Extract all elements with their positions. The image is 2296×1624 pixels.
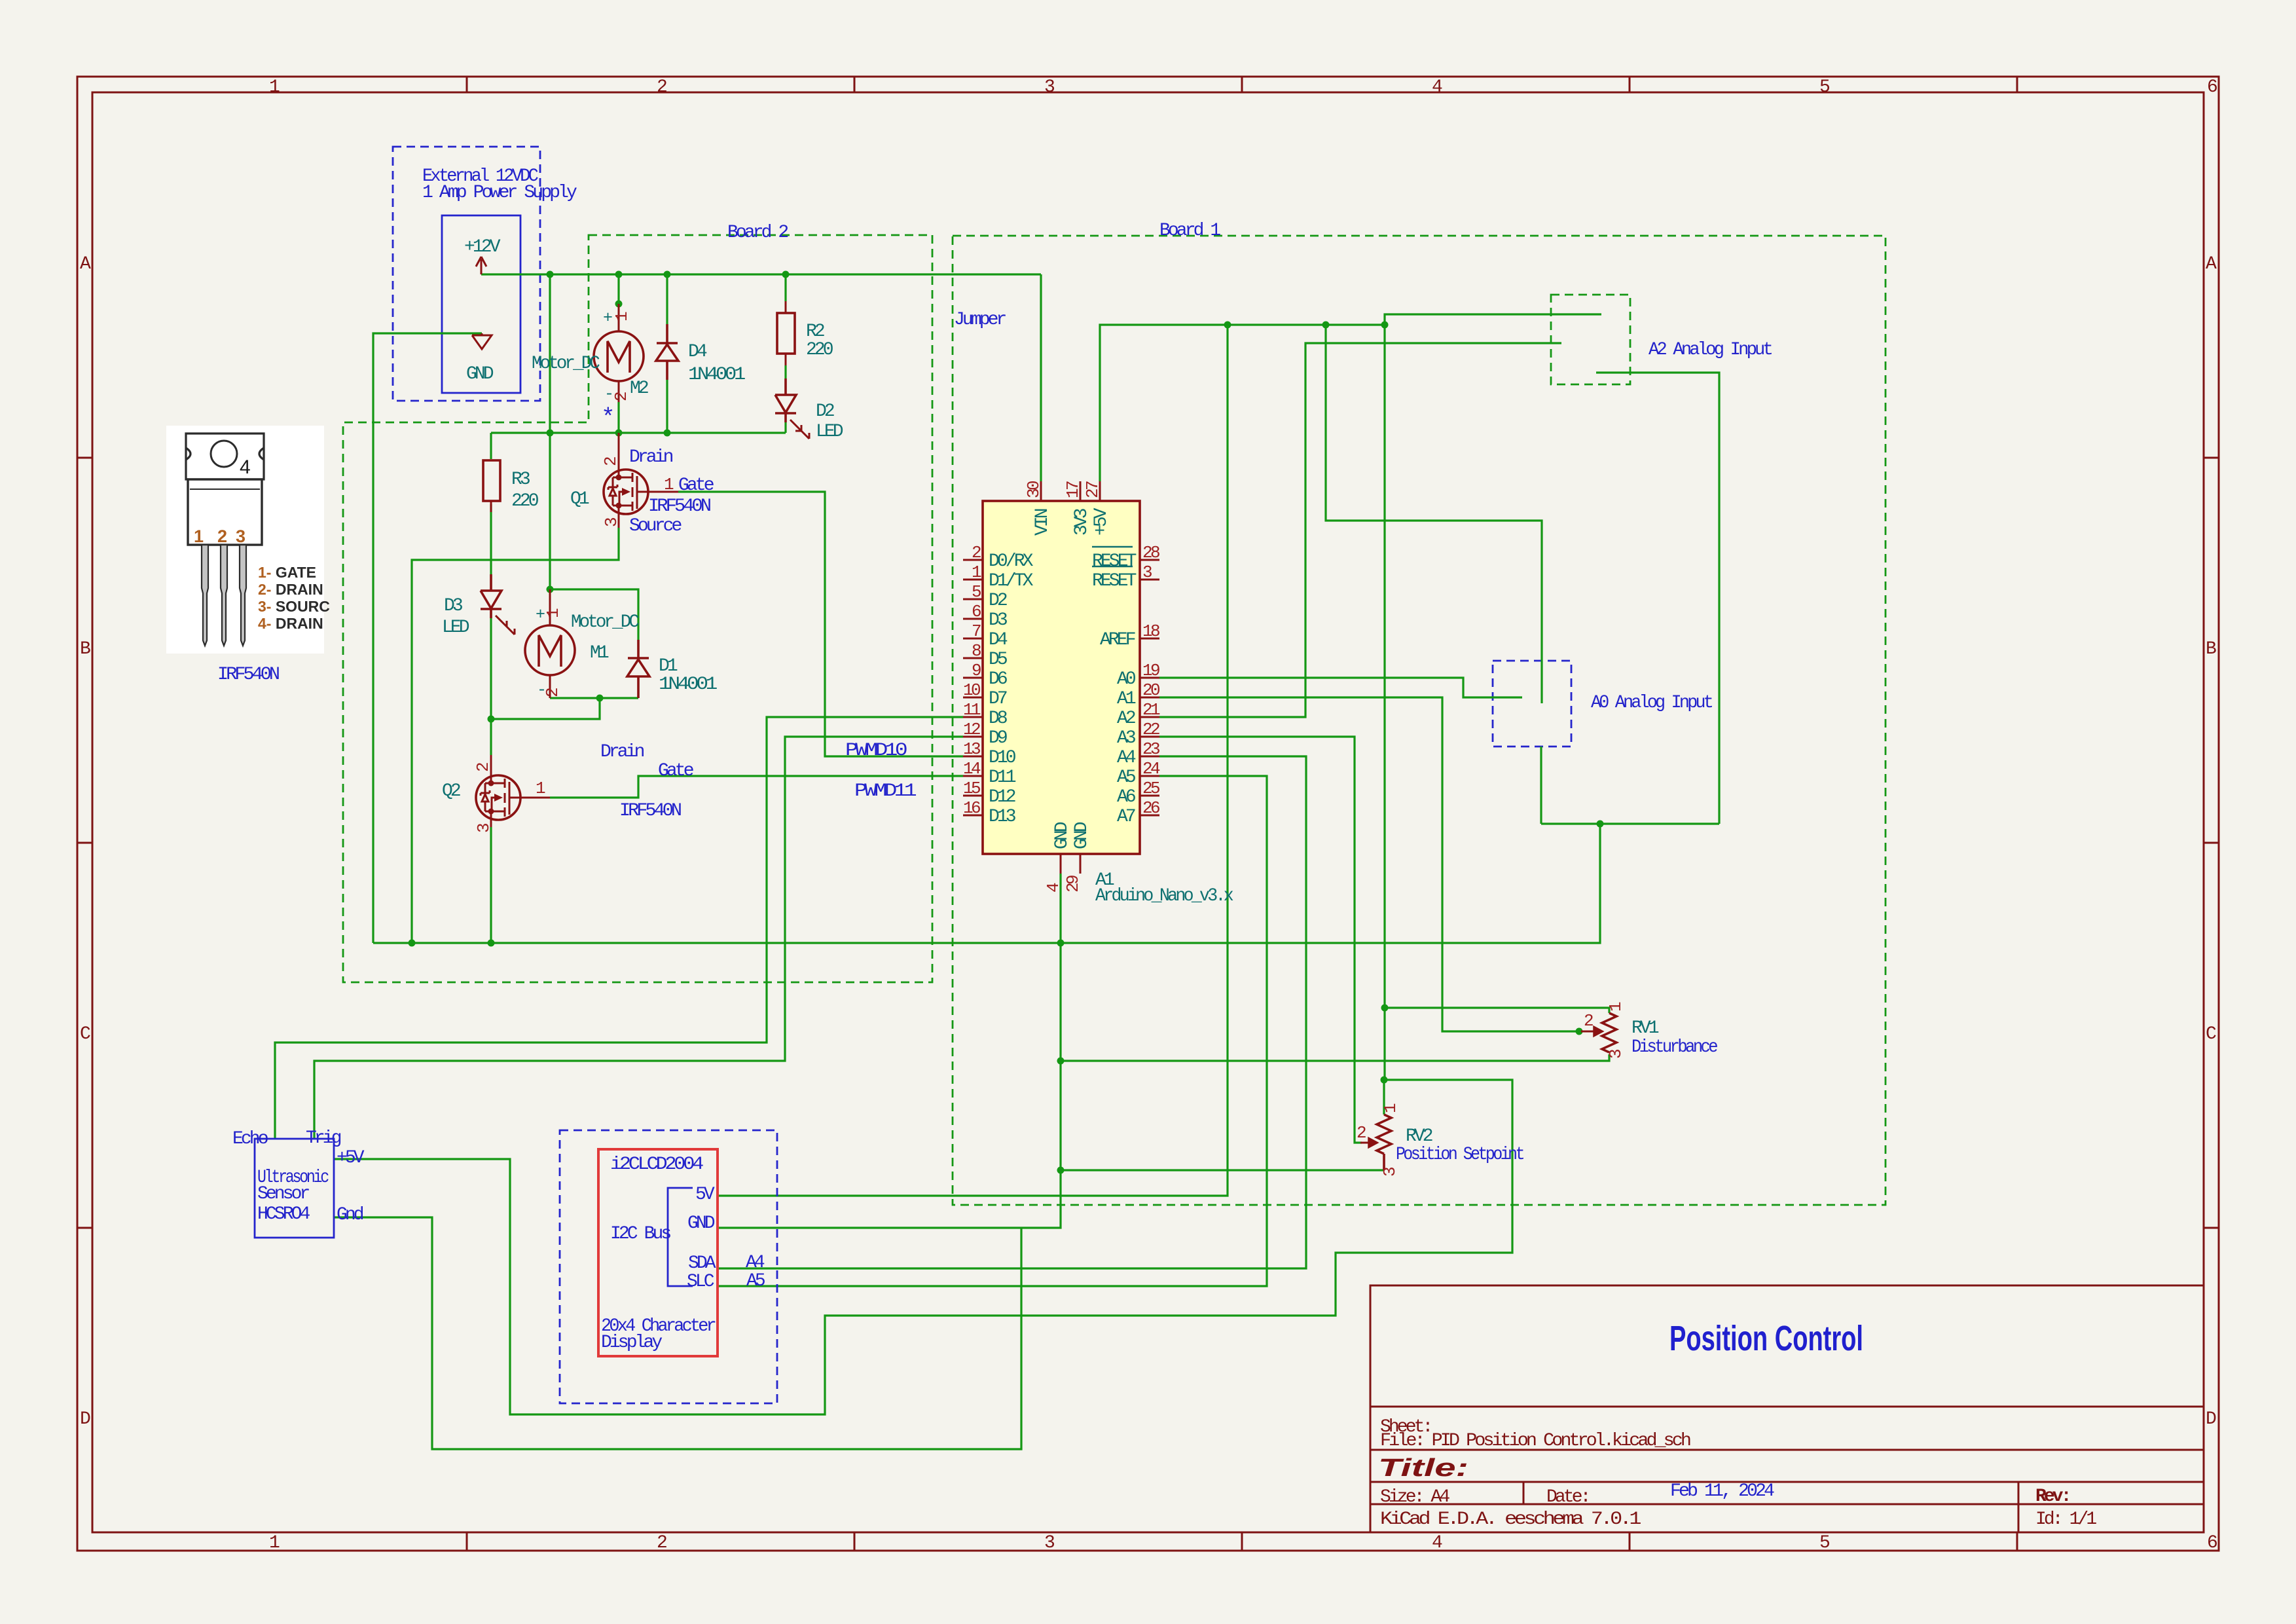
svg-text:D2: D2 <box>816 401 834 422</box>
svg-text:Drain: Drain <box>600 742 644 762</box>
wire A1 to RV1 wiper <box>1159 697 1579 1031</box>
IRF540N lead <box>240 545 246 646</box>
wire GND supply <box>373 333 482 943</box>
svg-text:A6: A6 <box>1117 787 1135 807</box>
svg-text:D4: D4 <box>688 342 707 362</box>
junction <box>664 271 671 278</box>
wire RV1 pin1 <box>1385 1008 1609 1013</box>
svg-text:Date:: Date: <box>1546 1487 1589 1507</box>
svg-text:A5: A5 <box>1117 767 1136 788</box>
junction <box>409 940 416 947</box>
svg-text:14: 14 <box>963 759 981 779</box>
wire node R3/M2/D4/D2 <box>491 432 786 434</box>
wire +5V rail <box>1100 325 1385 481</box>
wire A2 <box>1159 343 1561 717</box>
frame row tick <box>77 1227 92 1229</box>
svg-text:220: 220 <box>511 491 539 511</box>
arduino pin 10 D7 <box>963 697 983 699</box>
svg-text:D7: D7 <box>989 689 1007 709</box>
svg-text:3: 3 <box>474 824 494 833</box>
svg-text:1N4001: 1N4001 <box>688 365 745 385</box>
wire D3 to Q2 drain <box>490 609 492 755</box>
arduino pin 28 RESET <box>1140 559 1159 561</box>
junction <box>615 430 623 437</box>
svg-text:1N4001: 1N4001 <box>659 674 717 695</box>
svg-text:26: 26 <box>1142 798 1159 818</box>
svg-text:3- SOURC: 3- SOURC <box>258 598 330 615</box>
svg-text:6: 6 <box>2207 1533 2217 1553</box>
svg-text:LED: LED <box>816 422 843 442</box>
svg-text:Gate: Gate <box>658 761 693 781</box>
resistor R2 <box>777 301 795 365</box>
svg-text:Rev:: Rev: <box>2035 1486 2069 1507</box>
svg-text:D8: D8 <box>989 709 1007 729</box>
arduino pin 19 A0 <box>1140 677 1159 679</box>
wire RV1 pin3 <box>1061 1054 1609 1061</box>
svg-text:D1/TX: D1/TX <box>989 571 1034 591</box>
svg-text:2: 2 <box>1584 1011 1593 1031</box>
A2 analog input dashed box <box>1551 295 1630 384</box>
svg-text:-: - <box>604 384 611 403</box>
wire M2 minus <box>617 402 619 433</box>
svg-text:A7: A7 <box>1117 807 1135 827</box>
A0 analog input dashed box <box>1493 661 1571 747</box>
svg-text:29: 29 <box>1063 876 1083 893</box>
frame row tick <box>77 457 92 459</box>
wire R2 to D2 <box>784 365 786 378</box>
IRF540N tab <box>186 434 264 479</box>
wire arduino GND down <box>718 874 1061 1228</box>
svg-text:3: 3 <box>1142 563 1152 582</box>
svg-text:2: 2 <box>473 763 493 772</box>
wire A2 box top <box>1385 314 1601 325</box>
svg-text:23: 23 <box>1142 739 1159 759</box>
arduino pin 5 D2 <box>963 599 983 600</box>
transistor Q1 IRF540N <box>604 433 678 528</box>
I2C bus bracket <box>668 1188 693 1286</box>
Board 1 dashed box <box>953 236 1886 1205</box>
wire M1 plus loop <box>550 589 638 640</box>
svg-text:Disturbance: Disturbance <box>1631 1037 1717 1058</box>
svg-text:KiCad E.D.A. eeschema 7.0.1: KiCad E.D.A. eeschema 7.0.1 <box>1380 1509 1641 1530</box>
ultrasonic sensor HCSR04 box <box>255 1139 334 1238</box>
svg-text:6: 6 <box>2207 77 2217 98</box>
svg-text:GND: GND <box>1072 822 1092 849</box>
junction <box>1224 322 1231 329</box>
svg-text:2: 2 <box>601 457 621 466</box>
svg-text:15: 15 <box>963 779 980 798</box>
svg-text:R2: R2 <box>806 322 824 342</box>
wire Q1 source to bus <box>412 528 619 943</box>
wire A4 SDA <box>718 756 1306 1268</box>
svg-text:3: 3 <box>236 526 246 546</box>
svg-text:Position Control: Position Control <box>1669 1319 1863 1358</box>
junction <box>615 271 623 278</box>
svg-text:Position Setpoint: Position Setpoint <box>1396 1145 1523 1165</box>
svg-text:D10: D10 <box>989 748 1016 768</box>
wire RV2 pin3 <box>1061 1169 1384 1171</box>
svg-text:A0 Analog Input: A0 Analog Input <box>1591 693 1712 713</box>
arduino pin 21 A2 <box>1140 716 1159 718</box>
wire R2 top <box>784 274 786 301</box>
arduino pin 12 D9 <box>963 736 983 738</box>
svg-text:LED: LED <box>442 618 469 638</box>
svg-text:RESET: RESET <box>1092 571 1137 591</box>
svg-text:220: 220 <box>806 340 833 360</box>
svg-text:Board 2: Board 2 <box>727 223 788 243</box>
svg-text:11: 11 <box>963 700 981 720</box>
svg-text:A5: A5 <box>746 1271 765 1291</box>
resistor R3 <box>483 460 500 512</box>
svg-text:3: 3 <box>602 518 621 527</box>
svg-text:D13: D13 <box>989 807 1016 827</box>
junction <box>615 301 623 308</box>
svg-text:2: 2 <box>611 392 631 401</box>
frame column tick <box>1241 77 1243 92</box>
svg-text:IRF540N: IRF540N <box>648 496 710 517</box>
junction <box>782 271 790 278</box>
wire D4 bottom <box>666 380 668 433</box>
svg-text:PWMD10: PWMD10 <box>845 741 907 761</box>
svg-text:3: 3 <box>1380 1168 1400 1177</box>
wire VIN jumper <box>1040 274 1042 481</box>
+12V power symbol <box>476 257 486 274</box>
svg-text:I2C Bus: I2C Bus <box>610 1224 670 1244</box>
wire M1 minus to D1 <box>550 697 638 699</box>
transistor Q2 IRF540N <box>476 755 550 827</box>
wire M2 plus <box>617 274 619 304</box>
junction <box>488 716 495 723</box>
svg-text:GND: GND <box>1052 822 1072 849</box>
svg-text:1 Amp Power Supply: 1 Amp Power Supply <box>422 183 577 203</box>
arduino pin 27 +5V <box>1099 481 1101 501</box>
svg-text:D12: D12 <box>989 787 1015 807</box>
svg-text:4: 4 <box>240 456 251 478</box>
wire sensor +5V loop <box>334 1080 1512 1414</box>
wire +12V to M1+ <box>549 274 551 589</box>
frame column tick <box>466 77 468 92</box>
arduino pin 4 GND <box>1060 854 1062 874</box>
svg-text:A4: A4 <box>746 1253 765 1273</box>
svg-text:19: 19 <box>1142 661 1159 680</box>
svg-text:GND: GND <box>466 364 494 384</box>
junction <box>1057 940 1065 947</box>
IRF540N body <box>188 479 262 545</box>
svg-text:Q2: Q2 <box>442 781 460 802</box>
frame column tick <box>854 77 856 92</box>
arduino pin 20 A1 <box>1140 697 1159 699</box>
junction <box>1322 322 1330 329</box>
svg-text:2- DRAIN: 2- DRAIN <box>258 581 323 598</box>
wire +5V to A0 box <box>1326 325 1542 703</box>
svg-text:27: 27 <box>1083 481 1102 498</box>
svg-text:2: 2 <box>657 1533 666 1553</box>
svg-text:D1: D1 <box>659 656 678 676</box>
IRF540N mounting hole <box>211 441 237 467</box>
arduino pin 2 D0/RX <box>963 559 983 561</box>
svg-text:Source: Source <box>629 516 682 536</box>
arduino pin 22 A3 <box>1140 736 1159 738</box>
wire analog loop <box>1541 822 1719 824</box>
arduino pin 18 AREF <box>1140 638 1159 640</box>
svg-text:2: 2 <box>217 526 227 546</box>
svg-text:A3: A3 <box>1117 728 1136 748</box>
svg-text:A1: A1 <box>1117 689 1136 709</box>
svg-text:+5V: +5V <box>337 1148 365 1168</box>
svg-text:RV1: RV1 <box>1631 1018 1659 1039</box>
arduino pin 26 A7 <box>1140 815 1159 817</box>
svg-text:File: PID Position Control.kic: File: PID Position Control.kicad_sch <box>1380 1431 1690 1451</box>
svg-text:1- GATE: 1- GATE <box>258 564 316 581</box>
LED D3 <box>481 574 515 635</box>
arduino pin 29 GND <box>1080 854 1082 874</box>
svg-text:2: 2 <box>657 77 666 98</box>
arduino pin 3 RESET <box>1140 579 1159 581</box>
svg-text:10: 10 <box>963 680 980 700</box>
svg-text:D6: D6 <box>989 669 1007 690</box>
svg-text:21: 21 <box>1142 700 1160 720</box>
svg-text:Q1: Q1 <box>570 489 589 509</box>
svg-text:D9: D9 <box>989 728 1007 748</box>
arduino pin 11 D8 <box>963 716 983 718</box>
frame column tick <box>2016 77 2018 92</box>
arduino pin 6 D3 <box>963 618 983 620</box>
junction <box>1381 1077 1388 1084</box>
power supply dashed box <box>393 147 540 401</box>
arduino pin 16 D13 <box>963 815 983 817</box>
arduino pin 14 D11 <box>963 775 983 777</box>
IRF540N lead <box>202 545 208 646</box>
svg-text:13: 13 <box>963 739 980 759</box>
svg-text:2: 2 <box>1357 1123 1366 1143</box>
svg-text:A2: A2 <box>1117 709 1135 729</box>
wire sensor gnd <box>334 1217 1021 1449</box>
wire A0 <box>1159 678 1522 697</box>
junction <box>547 430 554 437</box>
arduino pin 17 3V3 <box>1080 481 1082 501</box>
potentiometer RV2 <box>1360 1115 1391 1170</box>
wire D4 top <box>666 274 668 324</box>
svg-text:8: 8 <box>972 641 981 661</box>
junction <box>1057 1167 1065 1174</box>
junction <box>1597 821 1604 828</box>
svg-text:Echo: Echo <box>232 1129 268 1149</box>
svg-text:AREF: AREF <box>1100 630 1135 650</box>
svg-text:7: 7 <box>972 621 981 641</box>
svg-text:*: * <box>601 405 613 432</box>
svg-text:Gnd: Gnd <box>337 1205 363 1225</box>
junction <box>596 695 604 702</box>
frame column tick <box>1629 77 1631 92</box>
svg-text:M1: M1 <box>590 643 609 663</box>
wire RV2 pin1 <box>1383 1080 1385 1115</box>
svg-text:D0/RX: D0/RX <box>989 551 1034 572</box>
svg-text:Motor_DC: Motor_DC <box>532 354 600 374</box>
diode D4 1N4001 <box>656 324 678 380</box>
wire Q2 source to bus <box>490 827 492 943</box>
junction <box>1381 322 1389 329</box>
wire D9 trig <box>314 737 963 1139</box>
arduino pin 7 D4 <box>963 638 983 640</box>
svg-text:RESET: RESET <box>1092 551 1137 572</box>
wire R3 top lead <box>490 433 492 459</box>
LCD i2CLCD2004 red box <box>598 1149 718 1356</box>
svg-text:2: 2 <box>543 688 562 697</box>
svg-text:Feb 11, 2024: Feb 11, 2024 <box>1670 1481 1774 1502</box>
svg-text:Gate: Gate <box>678 475 714 496</box>
title block frame <box>1370 1285 2204 1532</box>
junction <box>1576 1028 1583 1035</box>
svg-text:Id: 1/1: Id: 1/1 <box>2035 1509 2096 1530</box>
svg-text:Drain: Drain <box>629 447 673 468</box>
svg-text:D3: D3 <box>989 610 1008 631</box>
wire D8 echo <box>275 717 963 1139</box>
svg-text:M2: M2 <box>630 378 648 399</box>
svg-text:Board 1: Board 1 <box>1159 221 1220 241</box>
svg-text:IRF540N: IRF540N <box>217 665 279 685</box>
arduino pin 25 A6 <box>1140 795 1159 797</box>
potentiometer RV1 <box>1581 1013 1616 1052</box>
svg-text:28: 28 <box>1142 543 1159 563</box>
frame row tick <box>77 842 92 844</box>
svg-text:IRF540N: IRF540N <box>619 801 681 821</box>
svg-text:PWMD11: PWMD11 <box>854 781 917 802</box>
arduino pin 15 D12 <box>963 795 983 797</box>
wire Q1 gate PWMD10 <box>678 492 963 756</box>
svg-text:4- DRAIN: 4- DRAIN <box>258 615 323 632</box>
svg-text:GND: GND <box>687 1213 715 1234</box>
arduino pin 1 D1/TX <box>963 579 983 581</box>
svg-text:2: 2 <box>972 543 981 563</box>
Arduino Nano A1 body <box>983 501 1140 854</box>
svg-text:D4: D4 <box>989 630 1008 650</box>
wire Q2 gate PWMD11 <box>550 776 963 798</box>
svg-text:30: 30 <box>1024 481 1044 498</box>
wire A0 box bottom <box>1540 747 1542 824</box>
svg-text:Size: A4: Size: A4 <box>1380 1487 1449 1507</box>
svg-text:Motor_DC: Motor_DC <box>571 612 639 633</box>
svg-text:RV2: RV2 <box>1406 1126 1432 1147</box>
svg-text:R3: R3 <box>511 470 530 490</box>
arduino pin 9 D6 <box>963 677 983 679</box>
svg-text:16: 16 <box>963 798 980 818</box>
svg-text:1: 1 <box>194 526 204 546</box>
svg-text:A0: A0 <box>1117 669 1136 690</box>
junction <box>664 430 671 437</box>
wire +12V rail <box>481 273 1041 275</box>
svg-text:Jumper: Jumper <box>954 310 1006 330</box>
svg-text:3: 3 <box>1606 1050 1626 1059</box>
svg-text:i2CLCD2004: i2CLCD2004 <box>610 1154 703 1175</box>
svg-text:17: 17 <box>1063 481 1083 498</box>
svg-text:SDA: SDA <box>688 1253 716 1274</box>
svg-text:22: 22 <box>1142 720 1159 739</box>
svg-text:HCSRO4: HCSRO4 <box>257 1204 310 1225</box>
svg-text:6: 6 <box>972 602 981 621</box>
svg-text:SLC: SLC <box>687 1272 714 1292</box>
svg-text:A2 Analog Input: A2 Analog Input <box>1649 340 1772 360</box>
svg-text:25: 25 <box>1142 779 1159 798</box>
diode D1 1N4001 <box>627 640 649 698</box>
LCD dashed box <box>560 1130 777 1403</box>
wire A2 box right loop <box>1596 373 1719 824</box>
arduino pin 8 D5 <box>963 657 983 659</box>
GND power symbol <box>472 333 492 349</box>
motor M1 <box>525 589 575 698</box>
svg-text:D2: D2 <box>989 591 1007 611</box>
power supply inner box <box>442 215 520 393</box>
IRF540N package photo background <box>166 426 324 654</box>
wire A3 to RV2 wiper <box>1159 737 1362 1143</box>
motor M2 <box>594 304 644 402</box>
arduino pin 23 A4 <box>1140 756 1159 758</box>
arduino pin 13 D10 <box>963 756 983 758</box>
wire +5V to LCD 5V <box>718 325 1228 1196</box>
svg-text:12: 12 <box>963 720 980 739</box>
svg-text:A4: A4 <box>1117 748 1136 768</box>
svg-text:18: 18 <box>1142 621 1159 641</box>
svg-text:D11: D11 <box>989 767 1016 788</box>
svg-text:5: 5 <box>972 582 981 602</box>
svg-text:Title:: Title: <box>1378 1454 1468 1482</box>
svg-text:Display: Display <box>601 1333 662 1353</box>
junction <box>547 586 554 593</box>
wire +5V down to pots <box>1383 325 1385 1080</box>
svg-text:9: 9 <box>972 661 981 680</box>
wire R3 to D3 <box>490 504 492 591</box>
wire A5 SLC <box>718 776 1267 1286</box>
junction <box>1057 1058 1065 1065</box>
svg-text:Trig: Trig <box>306 1128 341 1149</box>
svg-text:+5V: +5V <box>1091 507 1112 536</box>
LED D2 <box>775 378 809 439</box>
arduino pin 24 A5 <box>1140 775 1159 777</box>
svg-text:+12V: +12V <box>464 237 501 257</box>
junction <box>1381 1005 1389 1012</box>
wire ground bus <box>373 824 1600 943</box>
wire D2 bottom <box>784 422 786 433</box>
svg-text:VIN: VIN <box>1032 509 1053 536</box>
wire M1 node down <box>491 698 600 719</box>
svg-text:20: 20 <box>1142 680 1159 700</box>
svg-text:24: 24 <box>1142 759 1160 779</box>
svg-text:D3: D3 <box>444 596 463 616</box>
svg-text:D5: D5 <box>989 650 1008 670</box>
svg-text:Sensor: Sensor <box>257 1184 310 1204</box>
svg-text:3V3: 3V3 <box>1072 508 1092 536</box>
arduino pin 30 VIN <box>1040 481 1042 501</box>
junction <box>488 940 495 947</box>
Board 2 dashed box <box>343 235 932 982</box>
junction <box>547 271 554 278</box>
svg-text:Arduino_Nano_v3.x: Arduino_Nano_v3.x <box>1095 886 1233 906</box>
IRF540N lead <box>221 545 227 646</box>
svg-text:5V: 5V <box>695 1185 715 1205</box>
